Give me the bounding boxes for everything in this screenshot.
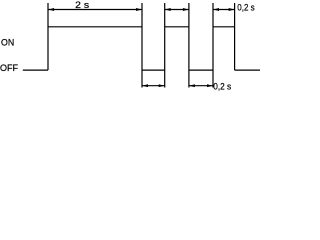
dimension line bottom gap1: [142, 85, 165, 87]
arrowhead left bottom gap1: [142, 84, 148, 87]
wire falling edge with extensions at x=142: [141, 3, 143, 88]
dimension line bottom gap2: [189, 85, 213, 87]
wire OFF level segment 1: [142, 69, 165, 71]
arrowhead right top pulse2: [229, 8, 235, 11]
wire falling edge with top extension at x=234.6: [234, 3, 236, 70]
arrowhead right bottom gap2: [207, 84, 213, 87]
wire ON level short pulse 1: [165, 26, 189, 28]
wire rising edge with top extension at x=48: [47, 3, 49, 70]
arrowhead right top pulse1: [183, 8, 189, 11]
arrowhead left bottom gap2: [189, 84, 195, 87]
dimension line top pulse1: [165, 9, 189, 11]
arrowhead right bottom gap1: [159, 84, 165, 87]
arrowhead left 2s: [48, 8, 54, 11]
wire rising edge with extensions at x=213: [212, 3, 214, 88]
svg-text:OFF: OFF: [0, 63, 18, 74]
arrowhead left top pulse2: [213, 8, 219, 11]
svg-text:ON: ON: [1, 38, 14, 49]
svg-text:0,2 s: 0,2 s: [237, 2, 254, 13]
dimension line top pulse2: [213, 9, 235, 11]
arrowhead left top pulse1: [165, 8, 171, 11]
wire falling edge with extensions at x=188.9: [188, 3, 190, 88]
wire OFF level segment 2: [189, 69, 213, 71]
dimension line 2s: [48, 9, 142, 11]
arrowhead right 2s: [136, 8, 142, 11]
wire rising edge with extensions at x=164.7: [164, 3, 166, 88]
wire ON level segment 2s pulse: [48, 26, 142, 28]
wire ON level short pulse 2: [213, 26, 235, 28]
svg-text:0,2 s: 0,2 s: [213, 82, 231, 93]
wire OFF level segment 3: [235, 69, 260, 71]
svg-text:2 s: 2 s: [75, 0, 89, 11]
wire OFF lead-in segment: [23, 69, 48, 71]
